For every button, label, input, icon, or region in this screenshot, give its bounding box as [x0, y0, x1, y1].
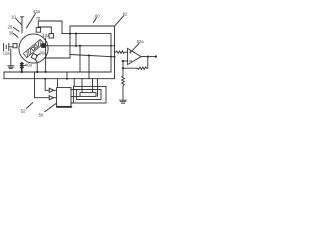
resistor R ground (vertical zigzag): [122, 75, 125, 87]
svg-text:62: 62: [123, 12, 128, 17]
label 62a leader: [132, 43, 139, 50]
contact box top: [36, 28, 40, 33]
wire vertical contact to bottom bus: [45, 38, 47, 72]
wire vertical x76: [75, 34, 77, 46]
wire vertical x70: [69, 26, 71, 58]
wire battery to ground: [10, 49, 12, 66]
wire y54.5 segment: [70, 55, 115, 57]
label 52 leader: [26, 103, 32, 109]
feedback tap down: [147, 57, 149, 69]
wire top contact up: [37, 21, 39, 28]
wire bus to nested outer: [73, 79, 75, 87]
op-amp U60: [128, 48, 141, 64]
label 40a leader: [23, 65, 25, 66]
wire buffer2 output: [54, 97, 57, 99]
contact box upper right: [49, 34, 54, 38]
wire node-27 horizontal: [38, 27, 51, 34]
nested loop outer: [73, 86, 106, 103]
wire inverting input: [122, 60, 128, 62]
resistor R input (horizontal zigzag): [115, 51, 128, 53]
wire bus drop x92.5: [92, 79, 94, 93]
label 60 leader: [93, 18, 96, 23]
svg-text:50: 50: [39, 112, 44, 117]
svg-text:40a: 40a: [25, 63, 33, 68]
bus hook left: [3, 72, 5, 79]
wire top horizontal: [38, 21, 62, 34]
wire down to ground resistor: [122, 68, 124, 75]
label 20 leader: [13, 27, 19, 31]
jog bus to bus x67: [66, 72, 68, 79]
wire bus y33.5: [62, 34, 111, 72]
rotary switch body (circle): [19, 34, 48, 63]
coil under circle: [21, 63, 23, 71]
contact blob right: [42, 44, 46, 48]
wire buffer1 input: [45, 79, 49, 91]
label 50 leader: [45, 104, 56, 112]
svg-text:30a: 30a: [39, 50, 47, 55]
terminal tick x22: [21, 17, 23, 33]
wire bus drop x97.5: [97, 79, 99, 97]
wire corner y26: [70, 26, 115, 79]
svg-text:52: 52: [21, 109, 26, 114]
rotary wiper hatched bar inside circle: [23, 39, 43, 57]
second bus y79: [4, 78, 115, 80]
op-amp plus mark: [129, 51, 131, 53]
svg-text:10: 10: [11, 15, 16, 20]
svg-text:10a: 10a: [43, 33, 51, 38]
label 62 leader: [115, 16, 123, 26]
svg-text:20: 20: [8, 24, 13, 29]
nested loop inner: [80, 93, 96, 97]
label 30 leader: [13, 33, 18, 37]
wire diamond down to bus: [35, 59, 37, 72]
buffer amp 2: [49, 96, 53, 100]
wire right contact bus y46: [45, 45, 114, 47]
wire bus drop x82: [81, 79, 83, 93]
svg-text:12a: 12a: [3, 50, 11, 55]
wire feedback up to input: [122, 61, 124, 68]
IC shadow bottom: [57, 106, 72, 108]
label 30a leader: [37, 54, 40, 56]
label 42a leader: [26, 14, 35, 28]
wire buffer1 output: [54, 89, 57, 91]
op-amp minus mark: [129, 60, 131, 62]
wire branch x89 down: [88, 56, 90, 79]
bottom bus y72: [4, 71, 111, 73]
wire branch x80 down: [79, 46, 81, 72]
svg-text:70: 70: [36, 16, 41, 21]
battery cell left edge: [4, 43, 13, 50]
svg-text:62a: 62a: [137, 39, 145, 44]
IC pin wire 3: [71, 102, 73, 104]
label 10 leader: [16, 19, 22, 25]
IC pin wire 1: [71, 89, 77, 91]
wire y58 segment: [46, 57, 70, 59]
ground right: [120, 100, 127, 103]
contact diamond lower right: [31, 53, 37, 59]
resistor R feedback (horizontal zigzag): [123, 67, 148, 69]
svg-text:30: 30: [9, 31, 14, 36]
wire bus to IC top: [57, 79, 59, 88]
svg-text:60: 60: [95, 13, 100, 18]
buffer amp 1: [49, 88, 53, 92]
wire resistor to ground: [122, 87, 124, 100]
contact box left: [13, 44, 17, 48]
nested loop middle: [77, 90, 101, 100]
ground left: [8, 66, 14, 69]
wire output: [141, 56, 156, 58]
junction dots: [21, 33, 116, 80]
IC block U50: [57, 88, 71, 107]
svg-text:42a: 42a: [33, 9, 41, 14]
wire buffer2 input: [35, 72, 50, 98]
IC pin wire 2: [71, 95, 80, 97]
output terminal dot: [155, 55, 157, 57]
